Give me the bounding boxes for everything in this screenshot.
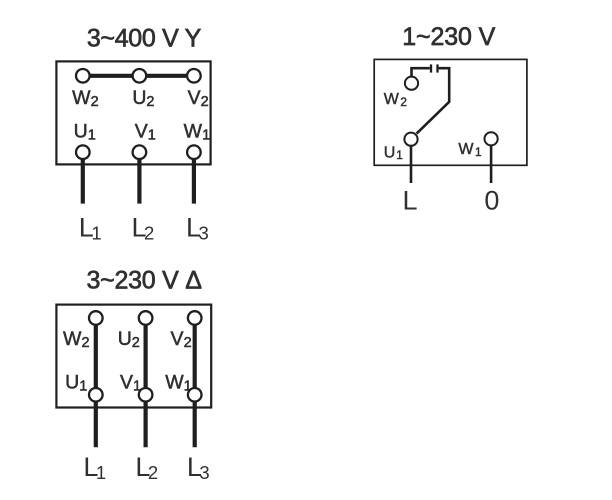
svg-text:V1: V1 — [120, 371, 141, 394]
terminal W1 (delta) — [165, 371, 201, 401]
wire W2-U1 to L1 — [94, 324, 98, 447]
svg-text:U1: U1 — [65, 371, 87, 394]
svg-text:3~230 V Δ: 3~230 V Δ — [86, 266, 202, 294]
svg-text:L3: L3 — [186, 212, 209, 243]
svg-text:3~400 V Y: 3~400 V Y — [87, 25, 202, 53]
wire U1 to L1 — [81, 158, 85, 203]
link bar W2-U2-V2 — [83, 74, 194, 78]
svg-text:U1: U1 — [74, 120, 96, 143]
svg-text:W2: W2 — [384, 91, 407, 109]
terminal W1 (single phase) — [458, 132, 497, 159]
svg-text:U2: U2 — [118, 328, 140, 351]
svg-text:V2: V2 — [188, 87, 209, 110]
terminal U1 (single phase) — [384, 133, 418, 163]
wire V1 to L2 — [137, 158, 141, 203]
terminal box (star connection) — [56, 61, 210, 164]
wire V2-W1 to L3 — [193, 324, 197, 447]
terminal U2 — [132, 69, 154, 110]
terminal W2 (single phase) — [384, 77, 418, 109]
svg-text:U1: U1 — [384, 145, 403, 163]
svg-text:W2: W2 — [63, 328, 89, 351]
svg-text:W2: W2 — [72, 87, 98, 110]
terminal W2 (delta) — [63, 311, 103, 351]
wire U2-V1 to L2 — [144, 324, 148, 447]
capacitor — [431, 64, 438, 72]
terminal W2 — [72, 69, 98, 110]
terminal W1 — [184, 120, 210, 159]
svg-text:L2: L2 — [131, 212, 154, 243]
terminal V2 (delta) — [171, 311, 202, 351]
svg-text:1~230 V: 1~230 V — [402, 23, 495, 51]
wire W1 to L3 — [192, 158, 196, 203]
terminal V1 — [133, 120, 156, 159]
svg-text:L3: L3 — [187, 452, 210, 483]
terminal U1 (delta) — [65, 371, 102, 401]
svg-text:0: 0 — [484, 186, 499, 216]
wire W1 to 0 — [490, 146, 493, 183]
terminal U2 (delta) — [118, 311, 153, 351]
wire capacitor to U1 — [417, 68, 450, 133]
terminal box (single phase) — [374, 59, 527, 165]
terminal U1 — [74, 120, 96, 159]
wire W2 to capacitor — [412, 68, 430, 77]
svg-text:L2: L2 — [135, 452, 158, 483]
wire U1 to L — [410, 147, 413, 184]
svg-text:L1: L1 — [79, 212, 102, 243]
svg-text:L1: L1 — [83, 452, 106, 483]
svg-text:V2: V2 — [171, 328, 192, 351]
terminal box (delta connection) — [56, 305, 211, 408]
terminal V1 (delta) — [120, 371, 152, 401]
svg-text:V1: V1 — [135, 120, 156, 143]
svg-text:W1: W1 — [184, 120, 210, 143]
svg-text:W1: W1 — [458, 141, 481, 159]
terminal V2 — [187, 69, 209, 110]
svg-text:W1: W1 — [165, 371, 191, 394]
svg-text:L: L — [402, 186, 417, 216]
svg-text:U2: U2 — [132, 87, 154, 110]
